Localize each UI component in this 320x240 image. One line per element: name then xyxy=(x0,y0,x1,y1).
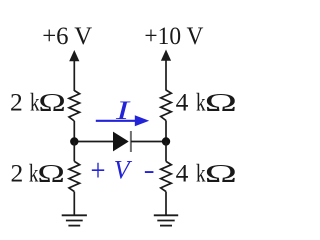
svg-text:+6 V: +6 V xyxy=(42,23,92,50)
svg-text:Ω: Ω xyxy=(205,159,237,188)
svg-text:4: 4 xyxy=(176,159,189,188)
svg-text:-: - xyxy=(144,157,155,184)
svg-text:2: 2 xyxy=(10,87,23,116)
ground (left) xyxy=(62,215,87,225)
node A junction dot xyxy=(70,137,78,145)
svg-text:4: 4 xyxy=(176,87,189,116)
wire node A to diode anode xyxy=(74,141,113,143)
svg-text:+: + xyxy=(91,152,106,188)
wire diode cathode to node B xyxy=(131,141,166,143)
svg-text:Ω: Ω xyxy=(37,159,65,188)
node B junction dot xyxy=(162,137,170,145)
wire top-left resistor to node A xyxy=(73,121,75,142)
svg-text:Ω: Ω xyxy=(205,87,237,116)
resistor R4 4k bottom-right zigzag xyxy=(161,161,172,191)
diode D1 triangle xyxy=(113,132,129,152)
wire top-right resistor to node B xyxy=(165,121,167,142)
ground (right) xyxy=(154,215,178,225)
wire node B to bottom-right resistor xyxy=(165,142,167,162)
resistor R1 2k top-left zigzag xyxy=(69,91,80,122)
current arrow (blue) xyxy=(96,115,149,126)
svg-text:2: 2 xyxy=(11,159,24,188)
wire bottom-right resistor to ground xyxy=(165,192,167,216)
resistor R2 2k bottom-left zigzag xyxy=(69,161,80,191)
power arrow +10V xyxy=(161,50,171,91)
power arrow +6V xyxy=(69,50,79,91)
wire node A to bottom-left resistor xyxy=(73,142,75,162)
diode D1 cathode bar xyxy=(130,131,132,152)
svg-text:Ω: Ω xyxy=(38,87,66,116)
wire bottom-left resistor to ground xyxy=(73,192,75,216)
svg-text:+10 V: +10 V xyxy=(144,23,203,50)
resistor R3 4k top-right zigzag xyxy=(161,90,172,121)
